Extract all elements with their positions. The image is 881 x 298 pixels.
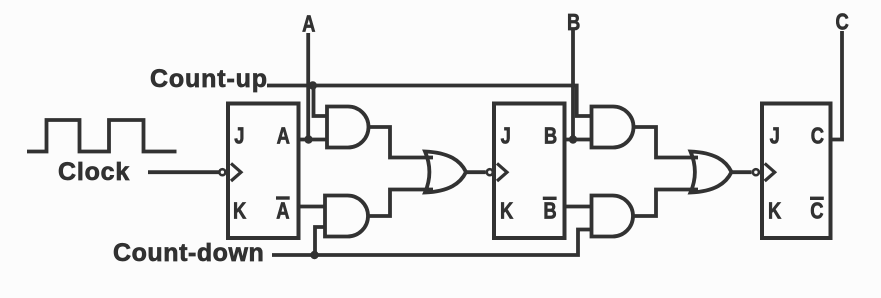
svg-text:A: A: [276, 199, 289, 224]
svg-text:K: K: [768, 199, 781, 224]
svg-text:J: J: [234, 124, 244, 149]
svg-text:C: C: [811, 124, 824, 149]
overbar Bbar FF2: [543, 197, 557, 200]
wire count-down: [272, 230, 592, 256]
clock triangle FF2: [497, 163, 507, 181]
wire G4 output to OR2: [633, 190, 698, 217]
svg-text:Count-up: Count-up: [150, 65, 268, 93]
wire Abar output to AND2: [298, 205, 325, 209]
flip-flop FF3: [762, 104, 831, 239]
svg-text:C: C: [810, 199, 823, 224]
wire Bbar output to AND4: [564, 205, 592, 209]
clock triangle FF1: [231, 163, 241, 181]
AND gate G2: [325, 196, 368, 237]
wire OR2 to FF3 clock: [732, 170, 752, 174]
OR gate OR2: [691, 152, 732, 193]
wire A tap vertical: [306, 33, 310, 140]
wire G2 output to OR1: [368, 190, 433, 217]
clock triangle FF3: [765, 163, 775, 181]
flip-flop FF1: [228, 104, 299, 239]
clock bubble FF2: [487, 169, 493, 175]
wire B output to AND3: [564, 138, 592, 142]
node A: [304, 135, 312, 143]
svg-text:Count-down: Count-down: [113, 239, 264, 267]
node count-down stage1: [310, 251, 318, 259]
wire count-down rise to AND2: [315, 227, 325, 255]
svg-text:B: B: [543, 199, 556, 224]
wire count-up drop to AND1: [314, 86, 328, 117]
wire A output to AND1: [298, 138, 327, 142]
wire clock input: [148, 170, 219, 174]
wire G1 output to OR1: [369, 127, 434, 158]
AND gate G3: [592, 107, 634, 148]
flip-flop FF2: [494, 104, 565, 239]
svg-text:J: J: [501, 124, 511, 149]
svg-text:B: B: [544, 124, 557, 149]
svg-text:A: A: [277, 124, 290, 149]
node count-up stage1: [309, 81, 317, 89]
clock bubble FF1: [219, 169, 225, 175]
svg-text:K: K: [233, 199, 246, 224]
AND gate G4: [592, 196, 634, 237]
wire OR1 to FF2 clock: [466, 170, 486, 174]
wire C output tap: [829, 31, 842, 140]
svg-text:Clock: Clock: [58, 158, 130, 186]
wire G3 output to OR2: [634, 127, 699, 158]
svg-text:K: K: [500, 199, 513, 224]
clock bubble FF3: [753, 169, 759, 175]
overbar Cbar FF3: [810, 197, 824, 200]
svg-text:J: J: [770, 124, 780, 149]
wire count-up: [267, 86, 592, 117]
clock waveform: [27, 120, 177, 152]
overbar Abar FF1: [276, 196, 290, 199]
AND gate G1: [327, 107, 368, 148]
wire B tap vertical: [571, 30, 575, 140]
node B: [569, 135, 577, 143]
OR gate OR1: [425, 152, 466, 193]
